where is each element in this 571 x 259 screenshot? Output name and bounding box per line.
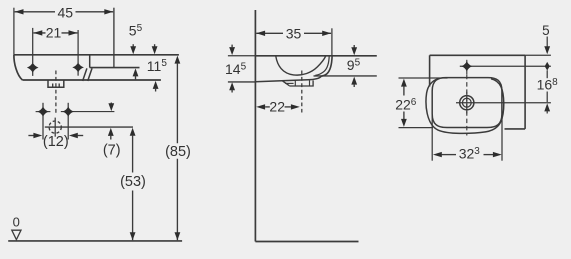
svg-text:0: 0 <box>13 214 20 229</box>
svg-text:(7): (7) <box>103 143 121 159</box>
svg-text:(85): (85) <box>165 144 191 160</box>
svg-text:35: 35 <box>286 25 302 41</box>
svg-text:5: 5 <box>542 23 550 38</box>
svg-text:22: 22 <box>269 98 285 114</box>
svg-text:21: 21 <box>46 25 62 41</box>
svg-text:(53): (53) <box>120 174 146 190</box>
svg-text:45: 45 <box>58 5 74 21</box>
